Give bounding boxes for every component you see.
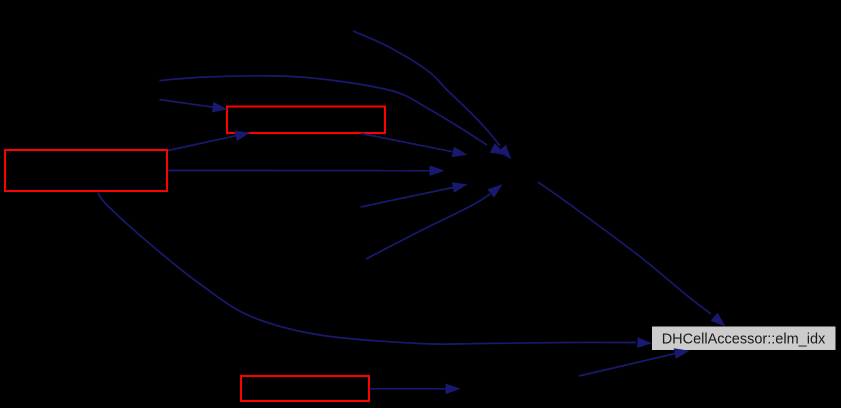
svg-text:DHCellAccessor::elm_idx: DHCellAccessor::elm_idx [662,332,826,348]
